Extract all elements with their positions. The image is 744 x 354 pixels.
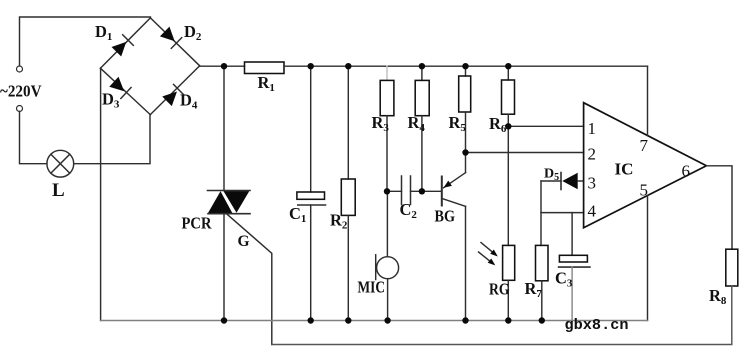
wire IC pin 6 output to R8 <box>706 166 732 249</box>
svg-text:BG: BG <box>435 207 456 226</box>
wire AC top lead to bridge top vertex <box>20 17 151 66</box>
resistor R6 <box>502 66 515 126</box>
lamp L <box>47 150 74 177</box>
node R4 / C2 / BG base <box>419 188 425 194</box>
capacitor C3 <box>559 255 590 320</box>
wire gate G diagonal <box>227 214 272 344</box>
resistor R7 <box>536 245 549 320</box>
capacitor C1 <box>297 66 326 320</box>
svg-text:G: G <box>238 233 250 250</box>
node bus / PCR cathode <box>221 317 227 323</box>
wire IC pin 4 <box>541 212 584 214</box>
wire bridge edge bottom-right <box>150 66 199 115</box>
resistor R3 <box>380 66 394 191</box>
node top bus / R4 <box>419 63 425 69</box>
wire R8 bottom to gate return <box>272 286 732 345</box>
node top bus / PCR <box>221 63 227 69</box>
node top bus / R5 <box>462 63 468 69</box>
capacitor C2 <box>387 176 441 205</box>
wire bottom bus <box>101 320 648 322</box>
wire bridge edge top-right <box>150 18 199 66</box>
svg-text:7: 7 <box>640 136 649 155</box>
resistor R8 <box>726 249 738 286</box>
node top bus / R6 <box>505 63 511 69</box>
wire top bus right of R1 <box>284 65 648 67</box>
wire lamp to bridge bottom vertex <box>74 115 150 164</box>
node R3 / C2 left <box>384 188 390 194</box>
node bus / RG <box>505 317 511 323</box>
node R6 / pin1 <box>505 123 511 129</box>
svg-text:5: 5 <box>640 181 649 200</box>
svg-text:gbx8.cn: gbx8.cn <box>565 317 629 334</box>
wire pin4 down to C3 <box>571 213 573 256</box>
wire IC pin 2 to R5/BG junction <box>466 152 584 154</box>
diode D1 <box>111 35 133 57</box>
node bus / BG collector <box>462 317 468 323</box>
resistor R2 <box>341 66 355 320</box>
node R5 / pin2 / BG emitter <box>462 149 468 155</box>
wire IC pin 5 to bottom bus <box>647 196 649 321</box>
node AC terminal bottom <box>17 106 23 112</box>
light arrows into RG <box>479 243 498 266</box>
node top bus / C1 <box>308 63 314 69</box>
svg-text:MIC: MIC <box>358 278 386 297</box>
wire R3 junction to MIC <box>386 191 388 256</box>
wire R6 junction down to RG <box>507 126 509 245</box>
wire PCR anode vertical <box>223 66 225 190</box>
wire IC pin 7 to top bus <box>647 66 649 135</box>
svg-text:L: L <box>52 180 65 201</box>
svg-text:1: 1 <box>588 119 597 138</box>
diode D5 <box>541 173 584 190</box>
wire D5 cathode down to R7 <box>540 181 542 245</box>
photoresistor RG <box>503 245 515 320</box>
wire bridge edge left-bottom <box>100 68 150 114</box>
node top bus / R2 <box>345 63 351 69</box>
microphone MIC <box>376 255 399 321</box>
wire top bus left of R1 <box>200 65 245 67</box>
transistor BG <box>442 153 466 321</box>
node bus / MIC <box>384 317 390 323</box>
svg-text:RG: RG <box>489 280 510 299</box>
diode D3 <box>109 76 131 98</box>
svg-text:3: 3 <box>588 174 597 193</box>
svg-text:6: 6 <box>682 162 691 181</box>
node bus / R2 <box>345 317 351 323</box>
wire PCR cathode vertical <box>223 214 225 321</box>
wire left vertical from bridge left vertex to bottom bus <box>100 68 102 320</box>
thyristor PCR <box>208 191 251 214</box>
diode D2 <box>159 26 181 48</box>
wire bridge edge left-top <box>100 18 150 68</box>
svg-text:PCR: PCR <box>182 214 213 233</box>
resistor R4 <box>415 66 429 191</box>
resistor R5 <box>459 66 471 152</box>
wire IC pin 1 to R6 junction <box>508 125 583 127</box>
svg-text:2: 2 <box>588 145 597 164</box>
resistor R1 <box>245 62 285 74</box>
svg-text:4: 4 <box>588 202 597 221</box>
node AC terminal top <box>17 66 23 72</box>
op-amp IC <box>584 103 707 228</box>
svg-text:IC: IC <box>615 160 634 179</box>
diode D4 <box>162 84 184 106</box>
svg-text:~220V: ~220V <box>0 82 42 101</box>
node bus / C1 <box>308 317 314 323</box>
wire AC bottom lead down to lamp <box>20 112 47 164</box>
node bus / R7 <box>539 317 545 323</box>
